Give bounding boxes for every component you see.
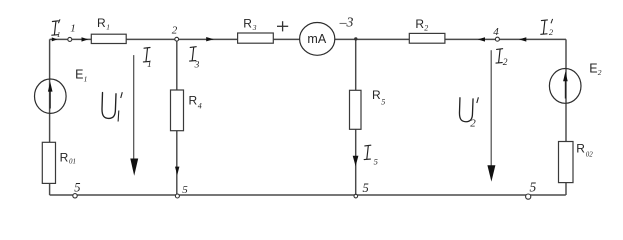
svg-text:4: 4 — [493, 26, 499, 38]
svg-text:1: 1 — [106, 23, 110, 32]
svg-text:R: R — [97, 16, 106, 30]
svg-text:2: 2 — [549, 27, 554, 37]
svg-text:E: E — [589, 62, 597, 76]
svg-text:3: 3 — [194, 61, 200, 71]
svg-text:1: 1 — [57, 30, 61, 39]
svg-text:5: 5 — [74, 180, 80, 194]
svg-text:3: 3 — [252, 23, 257, 32]
svg-text:2: 2 — [172, 25, 178, 37]
svg-text:5: 5 — [530, 180, 537, 195]
svg-text:1: 1 — [84, 75, 88, 84]
svg-text:5: 5 — [182, 184, 188, 196]
svg-text:R: R — [415, 17, 424, 31]
svg-text:1: 1 — [147, 60, 152, 70]
svg-text:5: 5 — [374, 156, 378, 166]
svg-text:2: 2 — [598, 68, 602, 77]
svg-text:4: 4 — [198, 102, 202, 111]
svg-text:01: 01 — [69, 158, 76, 166]
svg-text:R: R — [189, 94, 198, 108]
svg-text:02: 02 — [586, 151, 594, 159]
svg-text:–3: –3 — [339, 14, 354, 29]
svg-text:5: 5 — [363, 181, 369, 195]
svg-text:R: R — [372, 88, 381, 102]
svg-text:R: R — [576, 142, 585, 156]
svg-text:2: 2 — [470, 118, 476, 130]
svg-text:2: 2 — [424, 24, 428, 33]
svg-text:R: R — [243, 16, 252, 30]
svg-text:5: 5 — [381, 98, 385, 107]
svg-text:R: R — [60, 151, 69, 165]
svg-text:E: E — [75, 68, 83, 82]
svg-text:mA: mA — [307, 32, 326, 46]
svg-text:2: 2 — [503, 58, 508, 68]
svg-text:1: 1 — [70, 23, 76, 35]
